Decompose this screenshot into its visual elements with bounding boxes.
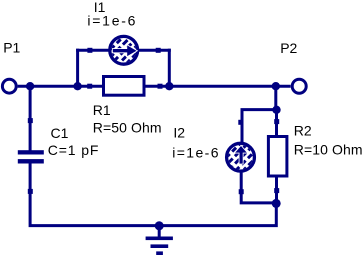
- wire: [29, 86, 32, 151]
- wire: [137, 49, 171, 52]
- wire: [168, 49, 171, 86]
- svg-text:i=1e-6: i=1e-6: [87, 13, 137, 29]
- pin marker C1 top: [28, 118, 33, 123]
- svg-text:C=1 pF: C=1 pF: [48, 142, 100, 158]
- wire: [241, 171, 276, 203]
- node: P2 branch node: [272, 82, 280, 90]
- svg-text:P2: P2: [280, 40, 297, 56]
- pin marker R2 top: [274, 119, 279, 124]
- ground: [146, 226, 173, 255]
- pin marker C1 bottom: [28, 189, 33, 194]
- capacitor C1: [18, 150, 44, 163]
- resistor R2: [268, 137, 287, 177]
- pin marker I1 right: [156, 48, 161, 53]
- svg-text:i=1e-6: i=1e-6: [172, 144, 220, 160]
- pin marker I1 left: [87, 48, 92, 53]
- wire: [242, 86, 276, 144]
- node: ground node: [155, 221, 164, 230]
- node: left node of R1/I1: [73, 82, 81, 90]
- node: right node of R1/I1: [165, 82, 173, 90]
- wire: [275, 110, 278, 137]
- wire: [145, 85, 291, 88]
- wire: [275, 176, 278, 203]
- svg-text:R=50 Ohm: R=50 Ohm: [93, 120, 162, 136]
- wire: [76, 49, 111, 52]
- svg-text:R2: R2: [294, 123, 312, 139]
- svg-text:R=10 Ohm: R=10 Ohm: [294, 142, 362, 158]
- current source I1: [110, 36, 138, 64]
- current source I2: [227, 143, 255, 171]
- wire: [30, 163, 276, 226]
- svg-text:C1: C1: [51, 125, 69, 141]
- svg-text:I2: I2: [173, 125, 185, 141]
- node: I2/R2 bottom merge: [272, 199, 281, 208]
- port P1: [2, 79, 16, 93]
- svg-text:R1: R1: [93, 102, 111, 118]
- port P2: [292, 79, 306, 93]
- pin marker R1 left: [87, 84, 92, 89]
- pin marker I2 top: [238, 120, 243, 125]
- wire: [76, 49, 79, 86]
- node: I2/R2 top split: [272, 106, 280, 114]
- svg-text:P1: P1: [3, 39, 20, 55]
- pin marker R2 bottom: [274, 188, 279, 193]
- wire: [18, 85, 103, 88]
- pin marker I2 bottom: [239, 189, 244, 194]
- node: junction at C1 top: [26, 82, 34, 90]
- resistor R1: [104, 77, 145, 96]
- pin marker R1 right: [158, 84, 163, 89]
